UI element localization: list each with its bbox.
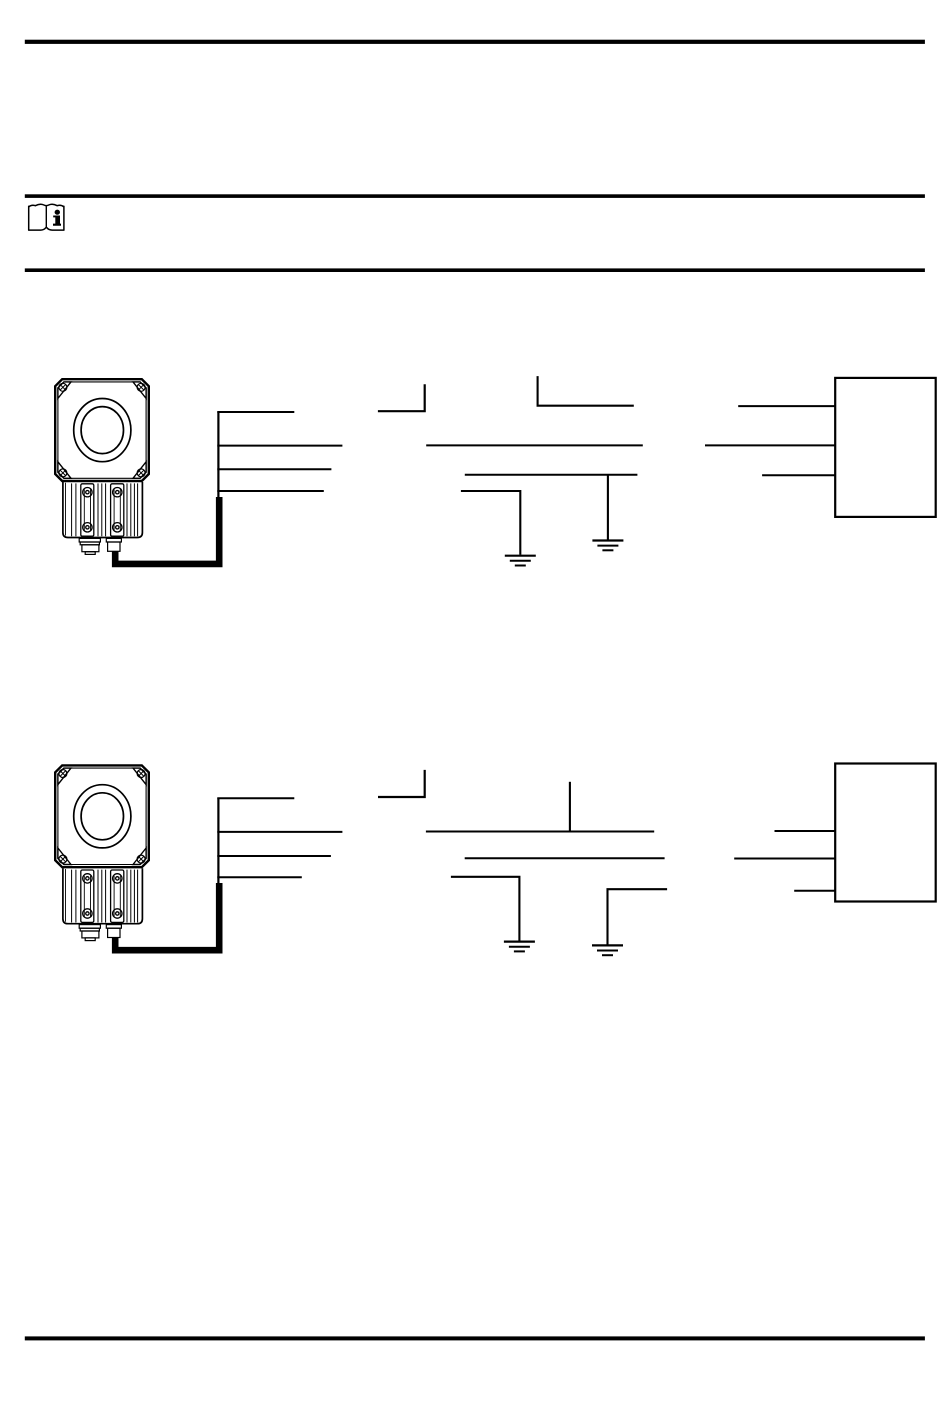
instruction manual icon (open book with i) — [29, 204, 64, 230]
power/IO cable (thick) — [115, 497, 219, 564]
ground branch wire (net 4) — [461, 491, 520, 555]
box lead 3 — [762, 474, 835, 476]
device box (diagram 1) — [835, 378, 936, 517]
box lead 1 (diagram 2) — [775, 830, 836, 832]
middle wire (net 3) — [465, 474, 638, 476]
ground drop from net 3 — [607, 475, 609, 540]
box lead 2 — [705, 444, 835, 446]
thin riser wire from cable end (diagram 2) — [217, 798, 219, 886]
note band top rule — [25, 194, 925, 198]
T-drop wire into bus (diagram 2) — [569, 782, 571, 832]
wire 3 from breakout (diagram 2) — [217, 855, 331, 857]
ground symbol 1 (diagram 2) — [504, 942, 535, 952]
ground branch wire right (diagram 2) — [608, 889, 668, 944]
camera unit 2 (vision sensor) — [55, 765, 149, 940]
ground symbol 2 (diagram 1) — [592, 541, 623, 551]
box lead 2 (diagram 2) — [734, 858, 835, 860]
wire 1 from breakout (diagram 2) — [217, 797, 294, 799]
wire 2 from breakout (diagram 2) — [217, 831, 342, 833]
wire 1 from breakout (top) — [217, 411, 294, 413]
middle bus wire (diagram 2 net 2) — [426, 831, 654, 833]
wire 3 from breakout — [217, 468, 331, 470]
device box (diagram 2) — [835, 764, 936, 902]
L-jog wire segment (net 1 continuation) — [378, 384, 425, 411]
thin riser wire from cable end — [217, 412, 219, 501]
wire 4 from breakout (bottom) — [217, 490, 323, 492]
note band bottom rule — [25, 268, 925, 272]
power/IO cable (thick, diagram 2) — [115, 883, 219, 950]
footer rule — [25, 1336, 925, 1340]
header top rule — [25, 40, 925, 44]
camera unit 1 (vision sensor) — [55, 379, 149, 554]
ground symbol 1 (diagram 1) — [505, 556, 536, 566]
ground branch wire left (diagram 2) — [451, 877, 520, 941]
wire 2 from breakout — [217, 445, 342, 447]
down-jog wire segment to box net — [538, 376, 634, 406]
middle wire (diagram 2 net 3) — [465, 857, 665, 859]
box lead 1 — [738, 405, 835, 407]
L-jog wire segment (diagram 2 net 1) — [378, 770, 425, 797]
box lead 3 (diagram 2) — [794, 890, 835, 892]
middle bus wire (net 2) — [426, 444, 643, 446]
ground symbol 2 (diagram 2) — [592, 945, 623, 955]
wire 4 from breakout (diagram 2) — [217, 876, 301, 878]
